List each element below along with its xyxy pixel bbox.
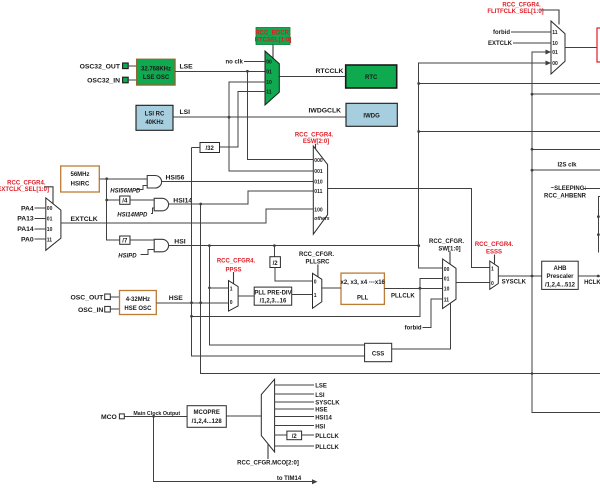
- register label RCC_CFGR4 ESSS: [475, 242, 514, 263]
- svg-text:HSI56: HSI56: [166, 174, 185, 181]
- wire I2S clk: [532, 163, 600, 171]
- oscillator LSI RC 40KHz: [136, 105, 173, 130]
- register label RCC_CFGR4 PPSS: [217, 259, 256, 284]
- svg-text:4-32MHz: 4-32MHz: [126, 297, 150, 303]
- svg-text:RCC_CFGR4.: RCC_CFGR4.: [475, 242, 514, 248]
- svg-text:10: 10: [47, 227, 53, 233]
- svg-text:RCC_CFGR4.: RCC_CFGR4.: [217, 259, 256, 265]
- svg-text:00: 00: [47, 206, 53, 212]
- wire HSI14 to ESW 011: [169, 191, 314, 206]
- wire HSE to SW 01: [192, 278, 443, 316]
- wire LSI to IWDG: [173, 109, 346, 118]
- svg-text:010: 010: [314, 179, 323, 185]
- svg-text:0: 0: [491, 281, 494, 287]
- pin PA4: [21, 205, 46, 212]
- wire HSI vertical to FLITF 00 and SW 00: [417, 63, 545, 268]
- svg-text:others: others: [314, 216, 330, 222]
- divider /32: [192, 143, 220, 153]
- node LSI input stub: [275, 393, 325, 399]
- svg-text:LSE: LSE: [315, 384, 327, 390]
- mux MCO: [261, 379, 274, 452]
- node SYSCLK input stub: [275, 401, 341, 407]
- svg-text:IWDGCLK: IWDGCLK: [309, 108, 342, 115]
- svg-text:forbid: forbid: [493, 30, 510, 36]
- svg-text:10: 10: [266, 80, 272, 86]
- svg-text:Prescaler: Prescaler: [546, 274, 574, 280]
- gate AND HSI: [118, 239, 168, 259]
- svg-text:RTC: RTC: [365, 75, 378, 81]
- svg-text:RTCCLK: RTCCLK: [316, 68, 344, 75]
- wire LSE: [175, 64, 265, 73]
- svg-text:1: 1: [491, 267, 494, 273]
- svg-text:OSC_IN: OSC_IN: [78, 307, 103, 314]
- wire RTCCLK: [279, 68, 345, 77]
- wire HSI to PPSS 1: [208, 287, 228, 290]
- svg-text:OSC32_IN: OSC32_IN: [87, 78, 120, 85]
- svg-text:HSIPD: HSIPD: [118, 253, 137, 259]
- pin PA14: [17, 226, 46, 233]
- svg-text:EXTCLK_SEL[1:0]: EXTCLK_SEL[1:0]: [0, 187, 49, 193]
- svg-text:/32: /32: [206, 146, 215, 152]
- wire FLITF output: [565, 47, 597, 49]
- arrow into FLITF 01: [546, 50, 552, 55]
- svg-text:00: 00: [266, 60, 272, 66]
- register label RCC_CFGR4 EXTCLK_SEL[1:0]: [0, 181, 53, 204]
- svg-text:/4: /4: [122, 199, 128, 205]
- mux EXTCLK_SEL: [46, 198, 61, 250]
- svg-text:01: 01: [444, 277, 450, 283]
- wire HSI main: [169, 239, 421, 247]
- svg-text:32.768KHz: 32.768KHz: [141, 67, 171, 73]
- pin OSC32_IN: [87, 77, 137, 85]
- svg-text:HSE: HSE: [315, 408, 327, 414]
- wire SYSCLK bus lower: [532, 148, 600, 150]
- pin OSC_IN: [78, 306, 120, 314]
- svg-text:000: 000: [314, 158, 323, 164]
- pin PA13: [17, 216, 46, 223]
- svg-text:LSI: LSI: [315, 393, 325, 399]
- pin OSC_OUT: [70, 294, 119, 302]
- wire HSE branch down v1 to CSS: [190, 147, 365, 355]
- arrow into FLITF 00: [546, 61, 552, 66]
- wire SYSCLK: [498, 275, 541, 286]
- node PLLCLK input stub: [275, 445, 340, 451]
- svg-text:Main Clock Output: Main Clock Output: [133, 411, 180, 417]
- gate AND HSI14: [117, 198, 168, 218]
- pin MCO: [101, 414, 187, 421]
- wire HSI14 branch down to ADC bus: [201, 204, 600, 375]
- svg-text:LSI: LSI: [180, 109, 191, 116]
- svg-text:forbid: forbid: [405, 326, 422, 332]
- wire LSI to ESW 001: [229, 117, 313, 171]
- wire EXTCLK to FLITF 10: [488, 41, 551, 47]
- svg-text:no clk: no clk: [225, 60, 243, 66]
- mux RTCSEL: [265, 51, 279, 105]
- wire HSE/32 to RTCSEL 11: [220, 92, 266, 148]
- svg-text:PLLCLK: PLLCLK: [391, 293, 415, 299]
- wire HCLK: [578, 275, 600, 287]
- svg-text:/1,2,4...128: /1,2,4...128: [192, 419, 223, 425]
- svg-text:001: 001: [314, 169, 323, 175]
- svg-text:0: 0: [314, 279, 317, 285]
- svg-text:/2: /2: [273, 261, 279, 267]
- wire SYSCLK bus upper: [532, 93, 600, 95]
- svg-text:RCC_CFGR.MCO[2:0]: RCC_CFGR.MCO[2:0]: [237, 461, 299, 467]
- block RTC: [346, 65, 397, 88]
- svg-text:/1,2,3...16: /1,2,3...16: [260, 299, 287, 305]
- wire MCO mux select RCC_CFGR.MCO[2:0]: [237, 444, 299, 466]
- svg-text:011: 011: [314, 189, 322, 195]
- svg-text:RCC_BDCR.: RCC_BDCR.: [255, 31, 291, 37]
- register label RCC_CFGR4 FLITFCLK_SEL[1:0]: [487, 3, 559, 25]
- block MCOPRE: [187, 406, 261, 428]
- wire HSI bus upper: [419, 83, 600, 85]
- mux PLLSRC: [313, 273, 322, 308]
- mux SW: [443, 259, 456, 309]
- svg-text:/2: /2: [292, 434, 298, 440]
- wire PLLCLK to SW 10: [384, 287, 442, 299]
- svg-text:MCOPRE: MCOPRE: [194, 410, 220, 416]
- svg-text:PLL: PLL: [357, 296, 369, 302]
- svg-text:RCC_CFGR.: RCC_CFGR.: [299, 252, 334, 258]
- svg-text:RCC_CFGR4.: RCC_CFGR4.: [502, 3, 541, 9]
- svg-text:100: 100: [314, 207, 323, 213]
- svg-text:LSE OSC: LSE OSC: [143, 75, 170, 81]
- svg-text:SYSCLK: SYSCLK: [502, 279, 527, 285]
- svg-text:PA0: PA0: [21, 237, 34, 244]
- oscillator LSE OSC 32.768KHz: [137, 59, 175, 85]
- divider /7: [120, 236, 155, 245]
- register label RCC_CFGR SW[1:0]: [429, 239, 464, 264]
- svg-text:LSI RC: LSI RC: [145, 112, 165, 118]
- block IWDG: [346, 103, 397, 126]
- svg-text:AHB: AHB: [554, 266, 568, 272]
- register label RCC_BDCR RTCSEL[1:0]: [255, 28, 292, 59]
- svg-text:1: 1: [314, 293, 317, 299]
- svg-text:PLL PRE-DIV: PLL PRE-DIV: [254, 291, 291, 297]
- svg-text:RCC_CFGR4.: RCC_CFGR4.: [7, 181, 46, 187]
- svg-text:EXTCLK: EXTCLK: [71, 216, 98, 223]
- svg-text:LSE: LSE: [180, 64, 194, 71]
- node LSE input stub: [275, 384, 327, 390]
- svg-text:HSI: HSI: [315, 424, 325, 430]
- svg-text:HSE: HSE: [169, 295, 183, 302]
- wire SW output to ESSS 0: [456, 282, 490, 284]
- svg-text:0: 0: [230, 300, 233, 306]
- svg-text:01: 01: [552, 50, 558, 56]
- svg-text:10: 10: [552, 41, 558, 47]
- node PLLCLK/2 input stub with divider /2: [275, 431, 340, 440]
- svg-text:CSS: CSS: [372, 351, 384, 357]
- svg-text:PA14: PA14: [17, 226, 34, 233]
- wire HSIRC feed to dividers: [105, 179, 119, 240]
- oscillator HSI RC 56MHz: [61, 166, 100, 192]
- wire LSI to RTCSEL 10: [229, 82, 265, 117]
- wire HSE to PPSS 0: [156, 295, 228, 304]
- svg-text:RCC_CFGR4.: RCC_CFGR4.: [295, 133, 334, 139]
- svg-text:PLLCLK: PLLCLK: [315, 445, 339, 451]
- register label RCC_CFGR4 ESW[2:0]: [295, 133, 334, 149]
- svg-text:56MHz: 56MHz: [70, 172, 89, 178]
- block PLL x2..x16: [322, 273, 386, 304]
- wire EXTCLK to ESW 100: [61, 209, 313, 223]
- svg-text:FLITFCLK_SEL[1:0]: FLITFCLK_SEL[1:0]: [487, 9, 543, 15]
- wire HSI56 to ESW 010: [162, 174, 314, 181]
- svg-text:RCC_AHBENR: RCC_AHBENR: [544, 194, 587, 200]
- wire forbid to SW 11: [405, 299, 443, 332]
- register label RCC_CFGR PLLSRC: [299, 252, 334, 277]
- svg-text:00: 00: [444, 267, 450, 273]
- wire HSIRC output: [99, 177, 147, 180]
- svg-text:HSI: HSI: [174, 239, 185, 246]
- svg-text:I2S clk: I2S clk: [557, 163, 577, 169]
- svg-text:11: 11: [444, 297, 450, 303]
- label SLEEPING RCC_AHBENR: [544, 186, 600, 200]
- svg-text:HCLK: HCLK: [584, 280, 600, 286]
- oscillator HSE OSC 4-32MHz: [120, 291, 157, 315]
- svg-text:RTCSEL[1:0]: RTCSEL[1:0]: [255, 38, 292, 44]
- svg-text:PA13: PA13: [17, 216, 34, 223]
- wire no clk: [225, 60, 265, 66]
- svg-text:11: 11: [552, 30, 558, 36]
- svg-text:EXTCLK: EXTCLK: [488, 41, 513, 47]
- wire to TIM14: [154, 416, 318, 484]
- svg-text:IWDG: IWDG: [363, 113, 380, 119]
- svg-text:HSI14: HSI14: [315, 415, 332, 421]
- wire HSI down to CSS upper input: [209, 246, 364, 345]
- wire LSE to ESW 000: [247, 71, 313, 159]
- wire forbid to FLITF 11: [493, 30, 551, 36]
- svg-text:/7: /7: [122, 239, 128, 245]
- gate AND HSI56: [110, 176, 161, 195]
- mux PPSS: [229, 281, 239, 312]
- pin OSC32_OUT: [80, 63, 137, 71]
- svg-text:~SLEEPING:: ~SLEEPING:: [551, 186, 587, 192]
- wire SYSCLK vertical bus: [531, 52, 600, 413]
- svg-text:11: 11: [47, 237, 53, 243]
- block CSS: [365, 343, 392, 361]
- wire ESW output to ESSS 1: [328, 189, 490, 268]
- svg-text:00: 00: [552, 61, 558, 67]
- svg-text:40KHz: 40KHz: [145, 120, 163, 126]
- svg-text:HSI14MPD: HSI14MPD: [117, 212, 148, 218]
- svg-text:01: 01: [266, 69, 272, 75]
- mux ESSS: [490, 261, 499, 289]
- svg-text:HSE OSC: HSE OSC: [124, 306, 152, 312]
- svg-text:HSIRC: HSIRC: [71, 182, 90, 188]
- svg-text:OSC32_OUT: OSC32_OUT: [80, 64, 121, 71]
- node HSE input stub: [275, 408, 328, 414]
- block FLITF (clipped red box): [597, 28, 600, 62]
- mux FLITFCLK_SEL: [551, 21, 565, 74]
- svg-text:PA4: PA4: [21, 205, 34, 212]
- svg-text:PLLCLK: PLLCLK: [315, 434, 339, 440]
- divider /4: [107, 196, 155, 205]
- svg-text:11: 11: [266, 90, 272, 96]
- gate AHB clock gate (clipped): [597, 197, 600, 253]
- svg-text:MCO: MCO: [101, 414, 117, 421]
- svg-text:to TIM14: to TIM14: [277, 476, 302, 482]
- svg-text:x2, x3, x4 ⋯x16: x2, x3, x4 ⋯x16: [341, 280, 386, 286]
- wire CSS output to SW mux: [392, 304, 451, 350]
- svg-text:10: 10: [444, 287, 450, 293]
- node HSI14 input stub: [275, 415, 333, 421]
- divider /2 PLL input: [270, 246, 313, 281]
- wire HSI bus lower: [419, 131, 600, 133]
- svg-text:01: 01: [47, 216, 53, 222]
- mux ESW: [313, 146, 330, 234]
- svg-text:1: 1: [230, 286, 233, 292]
- svg-text:OSC_OUT: OSC_OUT: [70, 295, 104, 302]
- svg-text:SYSCLK: SYSCLK: [315, 401, 340, 407]
- pin PA0: [21, 237, 46, 244]
- svg-text:RCC_CFGR.: RCC_CFGR.: [429, 239, 464, 245]
- block PLL PRE-DIV: [238, 287, 312, 305]
- block AHB Prescaler: [542, 261, 579, 289]
- svg-text:/1,2,4...512: /1,2,4...512: [545, 283, 576, 289]
- node HSI input stub: [275, 424, 326, 430]
